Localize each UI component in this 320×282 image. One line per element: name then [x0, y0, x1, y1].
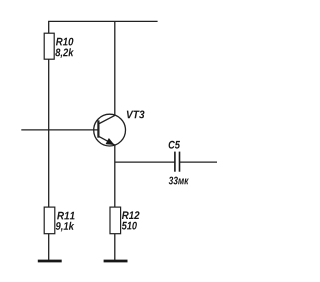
label R11: [57, 212, 74, 220]
wire top supply rail: [48, 20, 158, 22]
resistor R10: [44, 33, 54, 59]
wire R10 bottom to R11 top (through base node): [48, 59, 50, 207]
label R12 value 510: [122, 222, 137, 230]
wire rail to collector: [114, 21, 116, 115]
label C5: [169, 141, 180, 149]
wire emitter node to C5: [115, 161, 175, 163]
wire R11 bottom to ground: [48, 234, 50, 260]
label R10: [56, 38, 74, 46]
ground (right): [104, 260, 128, 263]
wire rail to R10 top: [48, 21, 50, 33]
resistor R12: [110, 207, 121, 234]
label VT3: [127, 111, 145, 119]
wire base lead: [21, 129, 98, 131]
label C5 value 33мк: [169, 177, 189, 185]
label R10 value 8,2k: [55, 48, 74, 58]
wire R12 bottom to ground: [114, 234, 116, 260]
ground (left): [38, 260, 62, 263]
label R12: [122, 211, 140, 219]
wire C5 to output: [180, 161, 218, 163]
wire emitter down to R12: [114, 145, 116, 207]
capacitor C5: [175, 152, 180, 172]
transistor VT3: [94, 114, 126, 146]
resistor R11: [44, 207, 55, 234]
label R11 value 9,1k: [56, 222, 75, 232]
